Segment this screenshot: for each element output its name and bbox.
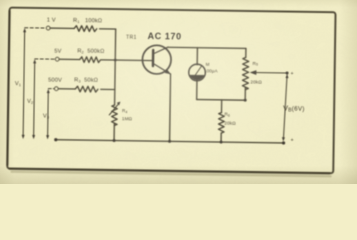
svg-text:500V: 500V xyxy=(48,77,62,83)
svg-text:TR1: TR1 xyxy=(126,35,137,41)
svg-text:500kΩ: 500kΩ xyxy=(87,49,104,55)
svg-text:1 V: 1 V xyxy=(47,18,56,24)
svg-text:1MΩ: 1MΩ xyxy=(122,116,133,121)
svg-text:20kΩ: 20kΩ xyxy=(224,121,236,126)
svg-text:R1: R1 xyxy=(73,18,80,24)
svg-text:AC 170: AC 170 xyxy=(148,31,182,41)
svg-text:R2: R2 xyxy=(77,48,84,54)
svg-text:5V: 5V xyxy=(54,48,61,54)
svg-text:R3: R3 xyxy=(74,77,81,83)
svg-text:R5: R5 xyxy=(253,61,259,67)
svg-text:+: + xyxy=(291,138,294,144)
svg-text:VB(6V): VB(6V) xyxy=(283,103,305,114)
svg-text:R4: R4 xyxy=(122,108,128,114)
svg-text:+: + xyxy=(291,71,294,77)
svg-text:100kΩ: 100kΩ xyxy=(85,18,102,24)
svg-text:50kΩ: 50kΩ xyxy=(84,78,98,84)
svg-text:100μA: 100μA xyxy=(204,68,218,73)
svg-text:V1: V1 xyxy=(15,81,22,87)
svg-text:20kΩ: 20kΩ xyxy=(250,80,262,85)
svg-text:M: M xyxy=(206,62,210,67)
svg-text:V2: V2 xyxy=(27,99,34,105)
svg-text:R6: R6 xyxy=(224,112,230,118)
svg-text:V3: V3 xyxy=(43,113,50,119)
